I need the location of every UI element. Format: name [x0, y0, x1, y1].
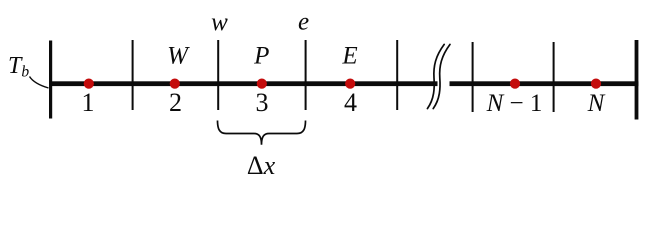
face tick 1-2 — [132, 40, 134, 110]
break squiggle right — [433, 44, 450, 108]
svg-text:e: e — [298, 9, 309, 36]
face tick left of N-1 — [472, 42, 474, 112]
svg-text:Δx: Δx — [247, 151, 276, 180]
svg-text:1: 1 — [82, 88, 95, 117]
face tick right of 4 — [396, 40, 398, 110]
break squiggle left — [427, 44, 444, 108]
left boundary wall — [49, 41, 52, 119]
face tick N-1 / N — [553, 42, 555, 112]
svg-text:E: E — [341, 43, 357, 70]
face tick w (2-3) — [217, 40, 219, 110]
svg-text:P: P — [253, 43, 269, 70]
svg-text:W: W — [167, 43, 190, 70]
node N-1 dot — [510, 79, 520, 89]
wire: main rod right segment — [450, 81, 639, 86]
node 1 dot — [84, 79, 94, 89]
underbrace for cell 3 — [218, 121, 306, 145]
svg-text:N: N — [587, 90, 606, 117]
node 3 (P) dot — [257, 79, 267, 89]
wire: main rod left segment — [49, 81, 438, 86]
svg-text:2: 2 — [169, 88, 182, 117]
svg-text:3: 3 — [256, 88, 269, 117]
T_b pointer curve — [30, 77, 49, 89]
svg-text:4: 4 — [344, 88, 357, 117]
svg-text:w: w — [211, 9, 228, 36]
node N dot — [591, 79, 601, 89]
node 4 dot — [345, 79, 355, 89]
face tick e (3-4) — [305, 40, 307, 110]
svg-text:N − 1: N − 1 — [486, 90, 543, 117]
right boundary wall — [635, 40, 639, 120]
node 2 dot — [170, 79, 180, 89]
